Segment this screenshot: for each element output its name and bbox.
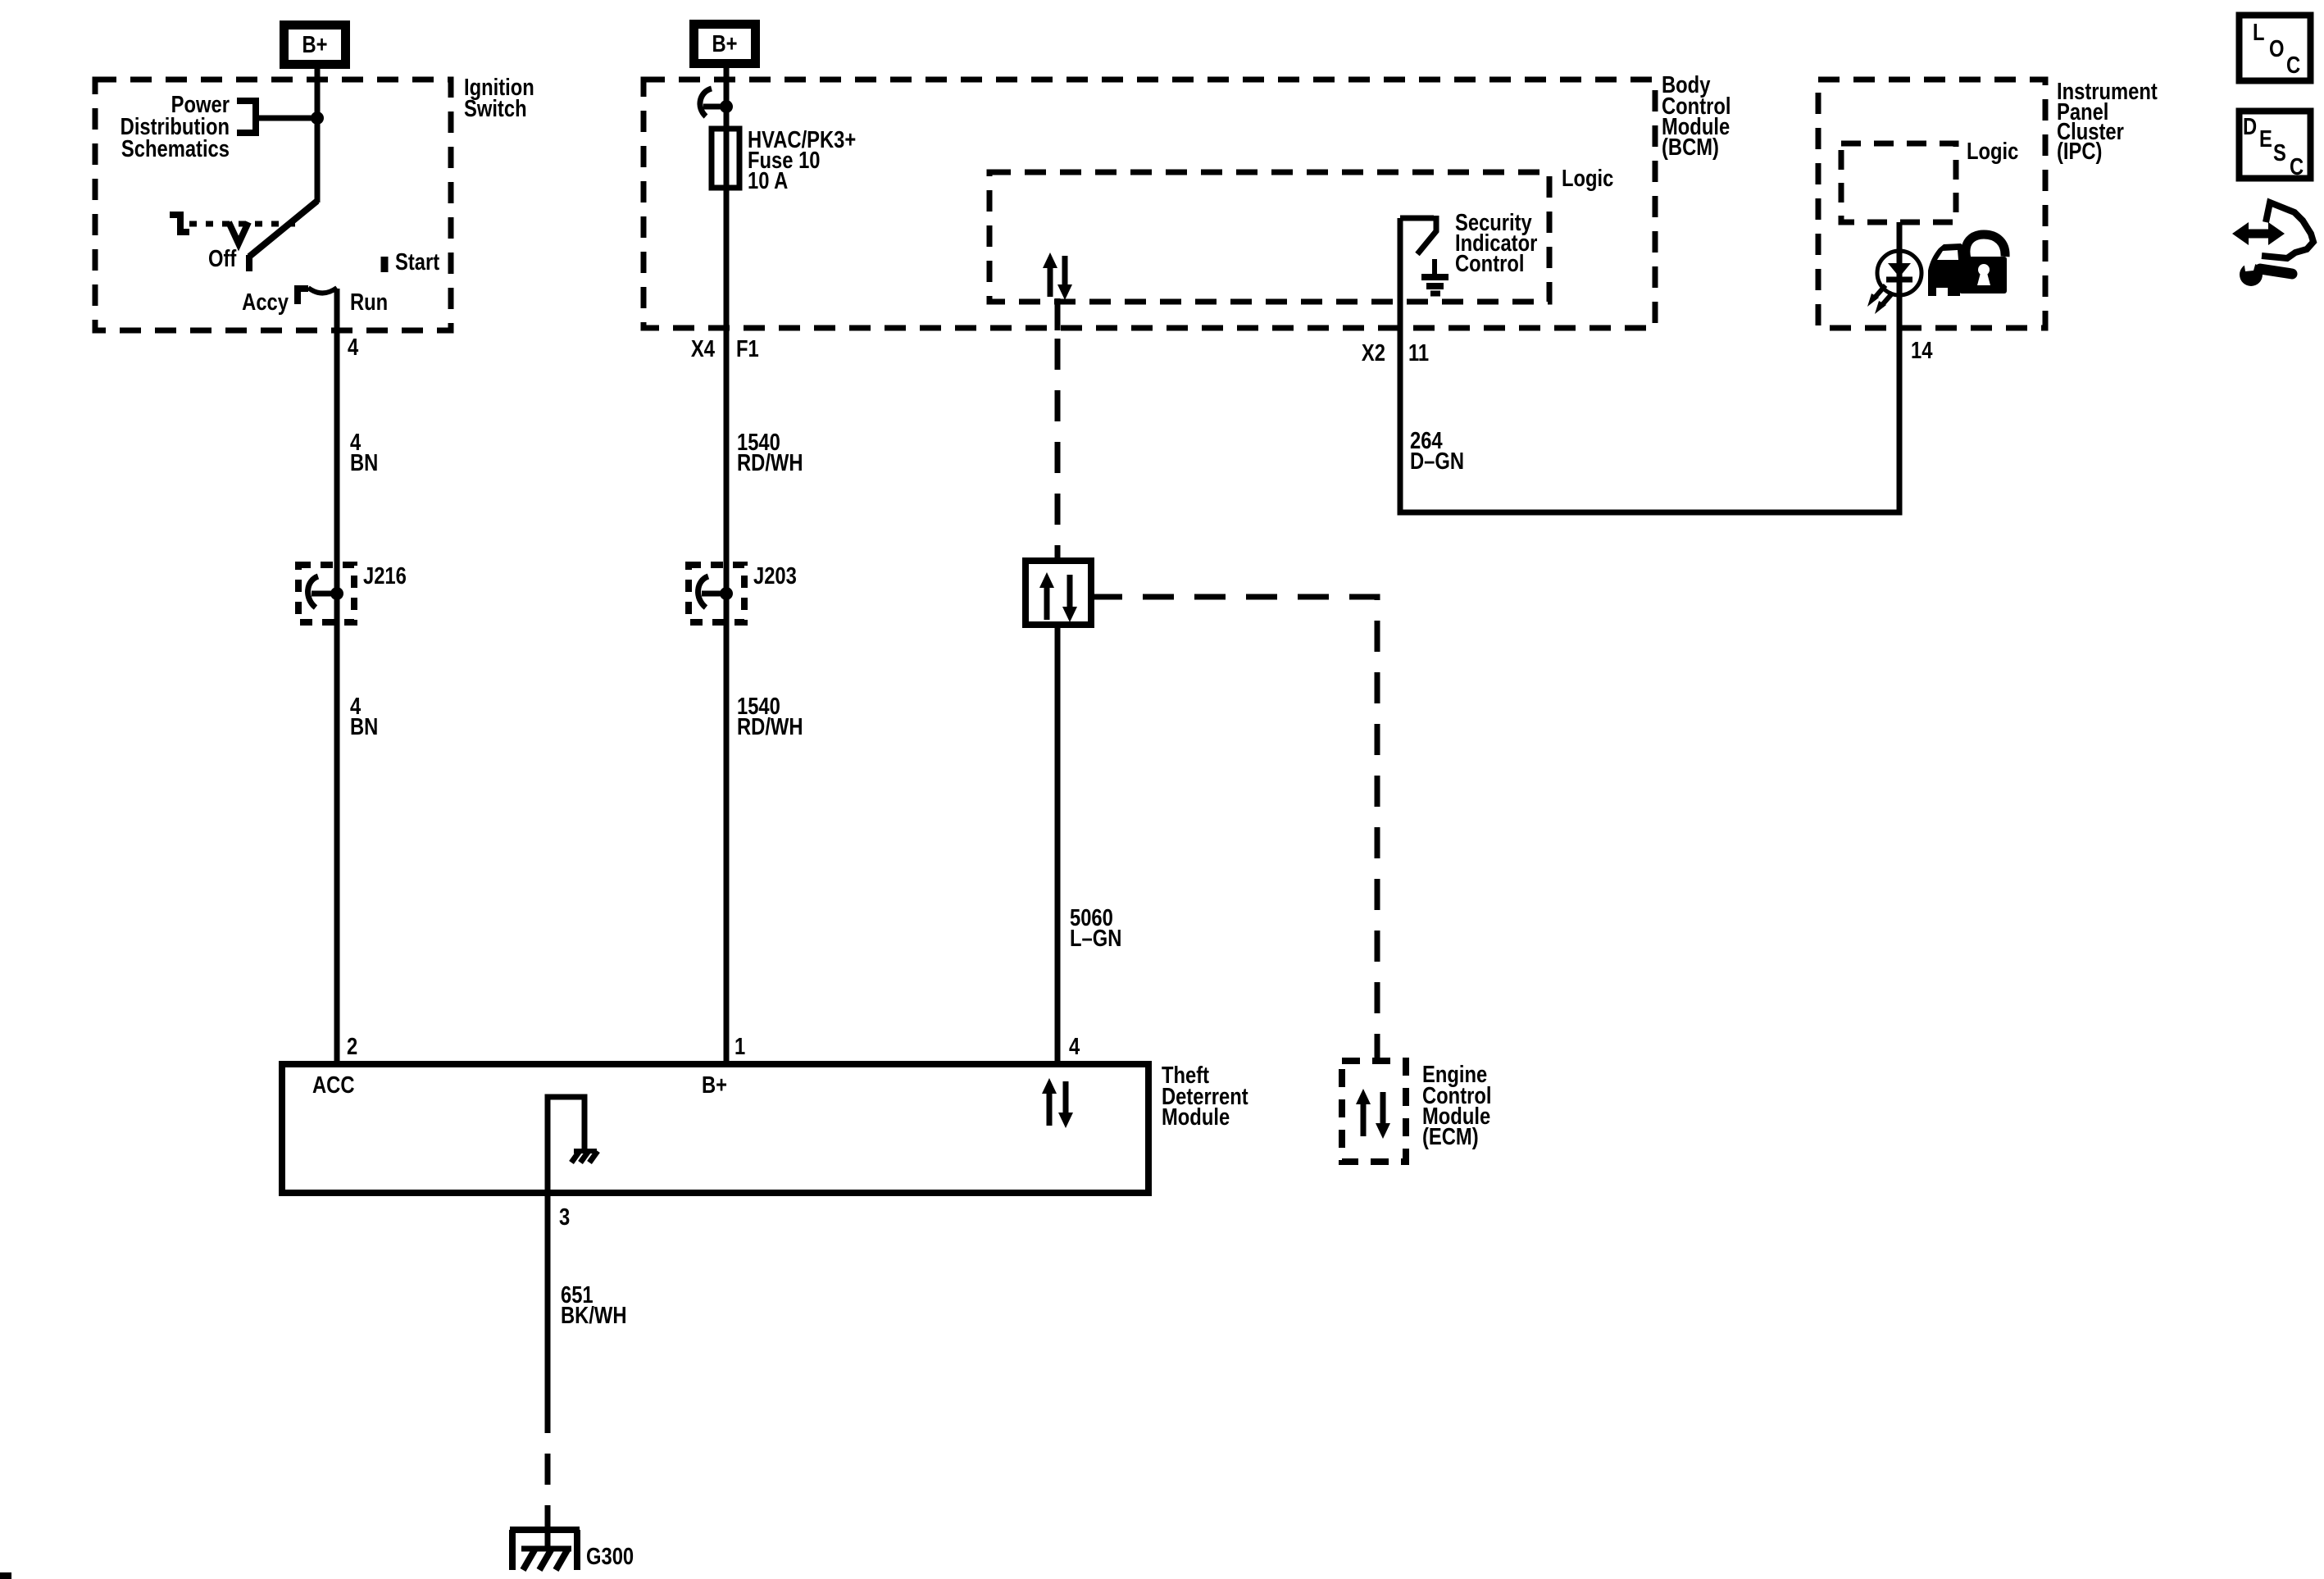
wire theft pin 3 to G300 (545, 1193, 551, 1402)
svg-text:G300: G300 (586, 1543, 634, 1570)
svg-text:(ECM): (ECM) (1422, 1123, 1479, 1150)
serial data arrows ECM (1356, 1089, 1390, 1139)
wire label 1540 RD/WH (2) (737, 693, 803, 740)
wire serial connector to theft pin 4 (1055, 625, 1061, 1064)
node junction dot (311, 111, 324, 125)
svg-text:BN: BN (350, 713, 378, 740)
svg-text:J216: J216 (363, 562, 407, 589)
car with lock icon (1928, 234, 2007, 296)
svg-text:Accy: Accy (242, 289, 289, 316)
label Theft Deterrent Module (1162, 1062, 1248, 1131)
start contact tick (381, 257, 389, 272)
internal ground theft module (548, 1097, 598, 1193)
wire logic to LED to pin 14 (1897, 222, 1903, 328)
dashed serial branch to ECM (1091, 597, 1377, 1061)
label Security Indicator Control (1455, 209, 1537, 277)
service icon double arrow (2232, 222, 2285, 245)
svg-text:(IPC): (IPC) (2057, 138, 2102, 165)
accy-run contact curve (308, 288, 337, 294)
LOC reference box (2240, 16, 2311, 81)
bracket power distribution (237, 101, 256, 133)
label Instrument Panel Cluster (IPC) (2057, 78, 2158, 165)
svg-text:RD/WH: RD/WH (737, 449, 803, 476)
svg-text:ACC: ACC (312, 1072, 354, 1099)
svg-text:S: S (2273, 139, 2286, 166)
wire label 5060 L-GN (1070, 904, 1121, 952)
wire label 651 BK/WH (561, 1281, 627, 1329)
DESC reference box (2240, 111, 2311, 180)
svg-text:3: 3 (559, 1204, 570, 1231)
svg-text:C: C (2286, 52, 2300, 79)
svg-text:D: D (2243, 113, 2257, 140)
svg-text:Module: Module (1162, 1103, 1230, 1131)
svg-text:X4: X4 (691, 335, 715, 362)
label HVAC/PK3+ Fuse 10 10 A (748, 126, 856, 194)
wire B+ through fuse and J203 to theft module pin 1 (724, 68, 730, 1064)
label Ignition Switch (464, 74, 534, 122)
instrument panel cluster dashed box (1818, 80, 2045, 328)
fuse HVAC/PK3+ Fuse 10 10A (712, 129, 739, 188)
svg-text:BN: BN (350, 449, 378, 476)
connector clip at B+ (700, 89, 733, 116)
wire label 4 BN (350, 429, 378, 476)
label Engine Control Module (ECM) (1422, 1061, 1491, 1150)
wire label 4 BN (2) (350, 693, 378, 740)
wire security indicator to IPC pin 14 (1400, 218, 1899, 512)
svg-text:Control: Control (1455, 250, 1524, 277)
wire branch to power distribution (255, 116, 317, 121)
pin X4 F1 (691, 335, 759, 362)
ignition switch dashed box (95, 80, 451, 330)
wire B+ to switch blade (315, 69, 321, 202)
serial data arrows theft module (1042, 1078, 1073, 1128)
svg-text:D–GN: D–GN (1410, 448, 1464, 475)
engine control module dashed box (1342, 1061, 1406, 1162)
wire serial data BCM to below box (1055, 298, 1061, 330)
power symbol B+ (left) (284, 25, 346, 65)
mechanical link dashed line (189, 221, 298, 227)
BCM logic dashed box (989, 172, 1549, 302)
svg-text:E: E (2259, 125, 2272, 152)
service icon outline shape (2262, 202, 2313, 258)
dashed wire to G300 (545, 1402, 551, 1527)
theft deterrent module box (282, 1064, 1148, 1193)
svg-text:Schematics: Schematics (121, 135, 230, 162)
splice J216 (298, 565, 354, 622)
dashed serial wire BCM to connector (1055, 339, 1061, 561)
svg-text:11: 11 (1408, 339, 1429, 366)
svg-text:C: C (2290, 153, 2304, 180)
svg-text:4: 4 (348, 334, 358, 361)
label Body Control Module (BCM) (1662, 71, 1730, 161)
corner artifact mark (0, 1572, 11, 1579)
accy contact bracket (298, 289, 308, 304)
serial data arrows in BCM (1043, 253, 1072, 300)
IPC logic dashed box (1841, 143, 1956, 222)
switch blade to Off (249, 201, 317, 271)
svg-text:J203: J203 (753, 562, 797, 589)
svg-text:F1: F1 (736, 335, 759, 362)
wire label 1540 RD/WH (737, 429, 803, 476)
svg-text:O: O (2269, 35, 2284, 62)
svg-text:10 A: 10 A (748, 167, 788, 194)
svg-text:L–GN: L–GN (1070, 925, 1121, 952)
security indicator control switch (1400, 216, 1436, 254)
svg-text:Logic: Logic (1562, 165, 1613, 192)
power symbol B+ (middle) (694, 25, 756, 64)
wiper contact V (229, 222, 248, 243)
svg-text:4: 4 (1069, 1033, 1080, 1060)
splice J203 (689, 565, 744, 622)
label Power Distribution Schematics (121, 91, 230, 162)
body control module dashed box (644, 80, 1655, 328)
svg-text:14: 14 (1911, 337, 1933, 364)
svg-text:(BCM): (BCM) (1662, 134, 1719, 161)
pin X2 11 (1362, 339, 1429, 366)
svg-text:Off: Off (208, 245, 236, 272)
svg-text:X2: X2 (1362, 339, 1385, 366)
wire Run pin 4 down through J216 to theft module pin 2 (334, 289, 340, 1064)
ground symbol BCM (1421, 259, 1449, 294)
svg-text:L: L (2253, 19, 2265, 46)
svg-text:B+: B+ (712, 30, 737, 57)
LED indicator (1867, 251, 1922, 314)
svg-text:B+: B+ (302, 31, 327, 58)
mechanical link hook (170, 215, 189, 232)
serial data connector box (1026, 561, 1091, 625)
svg-text:Start: Start (395, 248, 439, 275)
svg-text:Run: Run (350, 289, 388, 316)
svg-text:BK/WH: BK/WH (561, 1302, 627, 1329)
svg-text:Logic: Logic (1967, 138, 2018, 165)
ground G300 (510, 1527, 580, 1570)
svg-text:1: 1 (734, 1033, 745, 1060)
svg-text:Switch: Switch (464, 95, 527, 122)
svg-text:B+: B+ (702, 1072, 727, 1099)
service icon wrench (2240, 259, 2292, 286)
wire label 264 D-GN (1410, 427, 1464, 475)
svg-text:2: 2 (347, 1033, 357, 1060)
svg-text:RD/WH: RD/WH (737, 713, 803, 740)
